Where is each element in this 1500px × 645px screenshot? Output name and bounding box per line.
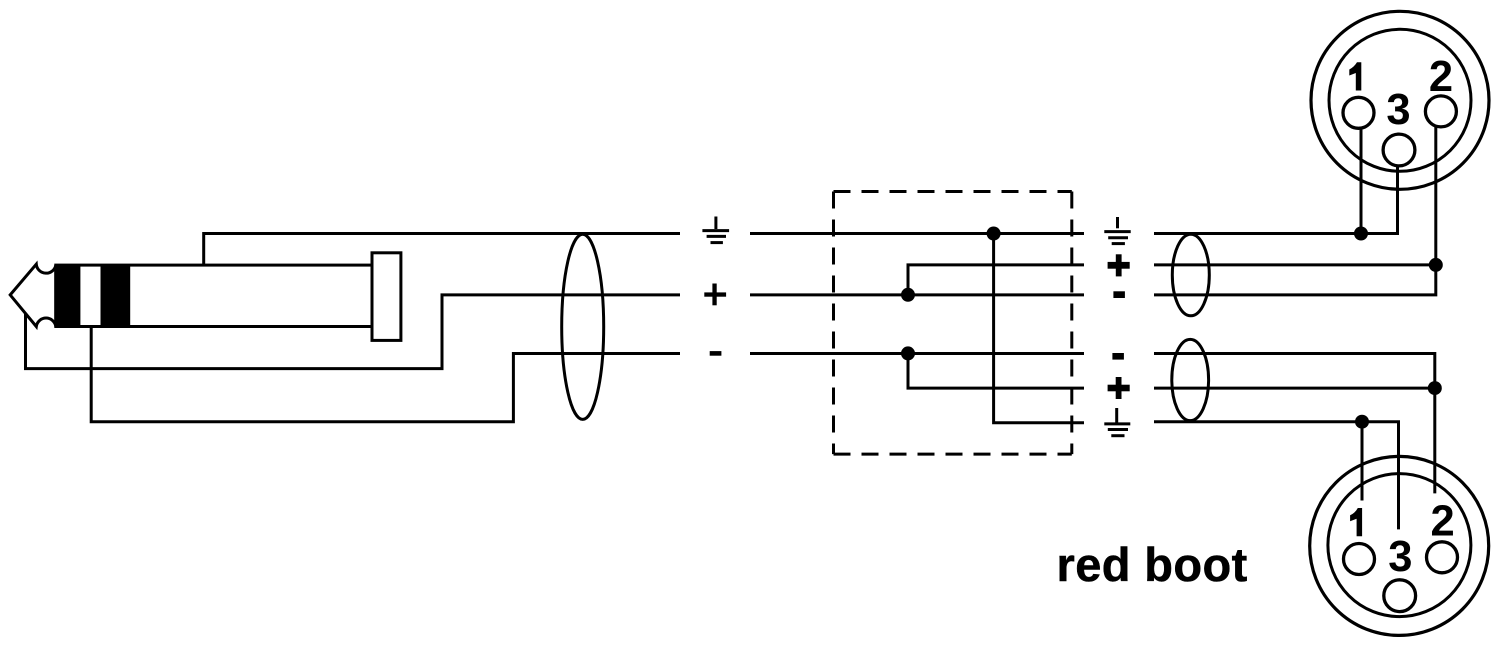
- XLR U1 pin 1: [1343, 97, 1374, 128]
- wire plus to XLR2 pin2: [1154, 387, 1435, 390]
- TRS jack plug J1 tip (arrow): [10, 264, 56, 326]
- svg-text:3: 3: [1386, 86, 1410, 134]
- junction dot XLR2 pin2-plus: [1428, 381, 1442, 395]
- cable sheath ellipse: [562, 234, 604, 419]
- XLR U1 pin 1 label: [1349, 62, 1361, 90]
- wire ring-to-minus: [91, 327, 680, 422]
- wire ground to XLR2 pin3: [1154, 422, 1399, 530]
- wire plus into junction box: [750, 293, 1084, 296]
- cable pair ellipse top: [1172, 234, 1209, 316]
- TRS jack plug J1 shaft body (sleeve): [56, 265, 374, 326]
- XLR U1 pin 2: [1425, 96, 1456, 127]
- minus label right top: [1113, 291, 1125, 298]
- svg-text:2: 2: [1429, 53, 1453, 101]
- wire ground to XLR1 pin3: [1154, 165, 1398, 234]
- XLR connector U1 outer circle: [1311, 11, 1489, 189]
- XLR U2 pin 1 wire: [1361, 422, 1364, 501]
- plus label left: [704, 284, 726, 306]
- junction dot XLR1 pin2-plus: [1429, 258, 1443, 272]
- minus label left: [710, 351, 722, 356]
- svg-text:red boot: red boot: [1057, 538, 1248, 591]
- wire sleeve-to-ground: [204, 234, 680, 266]
- TRS jack plug J1 collar: [372, 253, 401, 341]
- junction box (dashed): [834, 192, 1072, 455]
- TRS jack plug J1 ring insulator band: [101, 265, 131, 326]
- wire branch ground-down to XLR2 ground: [994, 234, 1084, 423]
- XLR connector U1 inner circle: [1329, 29, 1471, 171]
- wire minus into junction box: [750, 352, 1084, 355]
- ground symbol left: [702, 217, 729, 243]
- junction dot plus branch: [901, 288, 915, 302]
- ground symbol right bottom: [1104, 408, 1130, 436]
- wire minus to XLR1 pin2: [1154, 126, 1436, 295]
- XLR connector U2 outer circle: [1310, 456, 1489, 635]
- XLR U2 pin 3: [1384, 580, 1416, 612]
- plus label right top: [1108, 254, 1130, 276]
- junction dot XLR1 pin1-ground: [1354, 227, 1368, 241]
- svg-text:2: 2: [1430, 498, 1454, 546]
- junction dot ground branch: [987, 227, 1001, 241]
- cable pair ellipse bottom: [1172, 339, 1209, 420]
- wire minus to XLR2 pin2: [1154, 354, 1435, 494]
- XLR U1 pin 1 wire: [1360, 127, 1363, 234]
- junction dot minus branch: [901, 346, 915, 360]
- XLR U1 pin 3: [1383, 134, 1415, 166]
- junction dot XLR2 pin1-ground: [1355, 415, 1369, 429]
- ground symbol right top: [1104, 217, 1130, 244]
- TRS jack plug J1 tip insulator band: [56, 265, 81, 326]
- wire branch plus-up to XLR1 plus: [908, 265, 1084, 295]
- wire tip-to-plus: [26, 295, 681, 369]
- XLR U2 pin 1 label: [1350, 508, 1362, 536]
- plus label right bottom: [1108, 377, 1130, 399]
- wire branch minus-down to XLR2 plus: [908, 353, 1084, 388]
- wire plus to XLR1 pin2: [1154, 263, 1436, 266]
- XLR connector U2 inner circle: [1328, 474, 1471, 617]
- wire ground into junction box: [750, 232, 1084, 235]
- minus label right bottom: [1112, 353, 1124, 360]
- XLR U2 pin 2: [1427, 542, 1458, 573]
- XLR U2 pin 1: [1344, 544, 1375, 575]
- svg-text:3: 3: [1388, 533, 1412, 581]
